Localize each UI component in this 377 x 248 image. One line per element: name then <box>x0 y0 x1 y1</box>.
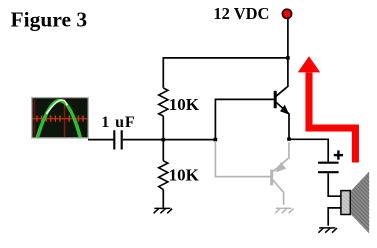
speaker driver box <box>341 191 350 215</box>
red current arrow (bent, pointing up) <box>309 73 355 163</box>
gray transistor Q2 upper lead <box>273 143 289 172</box>
ground under speaker <box>318 228 337 233</box>
gray ground under Q2 <box>275 208 294 213</box>
transistor Q1 collector lead <box>276 58 288 96</box>
transistor Q1 base bar <box>274 91 277 108</box>
scope horizontal axis <box>33 118 88 120</box>
scope green trace <box>37 101 80 138</box>
svg-text:Figure 3: Figure 3 <box>11 8 88 32</box>
resistor R1 10K (upper) <box>159 88 168 116</box>
wire speaker bottom terminal to ground <box>328 208 341 226</box>
oscilloscope input image <box>32 98 88 138</box>
transistor Q1 emitter lead <box>276 102 289 139</box>
wire C2 to speaker top terminal <box>328 173 341 196</box>
resistor R2 10K (lower) <box>159 161 168 190</box>
node junction base branch <box>214 138 218 142</box>
wire base branch up and to Q1 base <box>215 99 273 139</box>
speaker cone <box>351 171 369 233</box>
plus polarity mark <box>334 154 343 156</box>
scope center vertical graticule line <box>64 98 66 137</box>
ground under R2 <box>154 208 173 213</box>
wire cap to base-divider node <box>123 139 216 141</box>
wire from scope output to coupling cap <box>88 139 113 141</box>
gray disabled PNP base wire <box>215 141 270 177</box>
node junction divider/cap <box>162 138 166 142</box>
node junction emitter/output <box>287 137 291 140</box>
capacitor C1 1uF plates <box>114 130 121 149</box>
wire R2 to ground <box>162 190 164 209</box>
wire node down to R2 <box>162 140 164 161</box>
gray transistor Q2 arrowhead <box>275 162 286 172</box>
scope axis tick marks <box>37 115 83 121</box>
capacitor C2 plates (polarized) <box>318 163 339 173</box>
svg-text:10K: 10K <box>169 165 200 184</box>
gray transistor Q2 base bar <box>270 170 273 186</box>
wire top rail from R1 to collector branch <box>163 58 288 88</box>
svg-text:12 VDC: 12 VDC <box>213 4 269 23</box>
scope left dark red edge line <box>33 98 35 137</box>
transistor Q1 emitter arrowhead <box>280 105 289 115</box>
svg-text:10K: 10K <box>169 95 200 114</box>
gray transistor Q2 lower lead <box>273 180 284 205</box>
node junction top rail / collector <box>286 56 290 60</box>
wire emitter node to output cap <box>289 139 328 161</box>
wire R1 bottom to main node <box>162 116 164 140</box>
svg-text:1 uF: 1 uF <box>101 114 135 131</box>
wire from supply dot down to top rail <box>287 19 289 58</box>
supply terminal 12VDC (red dot) <box>282 9 291 18</box>
